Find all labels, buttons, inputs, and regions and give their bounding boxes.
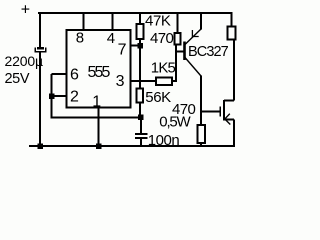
svg-text:2200µ: 2200µ [5, 53, 44, 69]
pin 6 label [70, 67, 79, 84]
wire rail to resistor R4 470 [177, 13, 179, 33]
resistor R5 470 0.5W body [198, 125, 206, 143]
resistor R4 470 body [175, 33, 181, 45]
svg-text:+: + [21, 2, 30, 19]
wire capacitor C2 to ground rail [140, 139, 142, 146]
pin 7 label [118, 41, 127, 58]
pin 3 label [116, 73, 125, 90]
svg-text:4: 4 [107, 30, 115, 47]
wire 56K to node B [139, 103, 141, 116]
label 555 [88, 64, 111, 81]
label 56K [145, 89, 171, 106]
svg-text:56K: 56K [145, 89, 171, 106]
gate wire to MOSFET Q2 [201, 110, 220, 112]
svg-text:100n: 100n [148, 132, 180, 149]
svg-text:BC327: BC327 [188, 44, 229, 60]
junction dot ground pin1 [96, 143, 102, 149]
label BC327 [188, 44, 229, 60]
wire node B down to capacitor C2 [140, 120, 142, 133]
svg-text:470: 470 [150, 30, 173, 47]
wire emitter to top rail [200, 13, 202, 30]
resistor R3 1K5 body (horizontal) [156, 78, 172, 86]
wire from rail to capacitor C1 [39, 12, 41, 48]
svg-text:0,5W: 0,5W [159, 114, 191, 131]
node A junction dot [137, 43, 143, 49]
svg-text:25V: 25V [5, 71, 30, 87]
svg-text:8: 8 [76, 29, 84, 46]
pin 2 wire [52, 95, 67, 97]
pin 1 label [92, 93, 101, 110]
svg-text:1K5: 1K5 [151, 60, 176, 77]
resistor R2 56K body [137, 89, 144, 103]
pin 8 label [76, 29, 84, 46]
wire rail to resistor R1 47K [139, 13, 141, 24]
svg-text:6: 6 [70, 67, 79, 84]
label 470 base resistor [150, 30, 173, 47]
svg-text:2: 2 [70, 89, 79, 106]
pin 1 wire down to ground [98, 108, 100, 147]
op-amp U1 555 IC box [67, 30, 131, 108]
wire rail corner to load resistor [231, 12, 233, 27]
battery plus label [21, 2, 30, 19]
wire R5 to ground rail [200, 143, 202, 146]
label 47K [145, 12, 171, 29]
trigger net vertical wire (pins 6-2) [51, 74, 53, 117]
ground rail wire [29, 145, 235, 147]
capacitor C1 2200µ electrolytic symbol [35, 48, 46, 52]
junction dot pin2 [49, 93, 55, 99]
capacitor C2 100n symbol [135, 134, 148, 138]
pin 3 wire to 1K5 [131, 80, 157, 82]
wire load resistor to MOSFET drain [233, 40, 235, 101]
transistor Q1 BC327 PNP [185, 29, 202, 76]
node B junction dot [138, 115, 144, 121]
transistor Q2 power MOSFET symbol [220, 100, 234, 125]
label 0,5W [159, 114, 191, 131]
trigger net horizontal wire to node B [51, 117, 139, 119]
pin 6 wire [52, 73, 67, 75]
wire 470 bottom to base node [175, 45, 177, 53]
wire from capacitor C1 down to ground rail [39, 52, 41, 146]
top V+ rail wire [38, 12, 232, 14]
label 25V [5, 71, 30, 87]
pin 7 wire [131, 45, 140, 47]
svg-text:47K: 47K [145, 12, 171, 29]
wire gate node down to resistor R5 [200, 112, 202, 125]
wire base node to transistor Q1 base [176, 50, 184, 52]
svg-text:7: 7 [118, 41, 127, 58]
junction dot ground-left [37, 143, 43, 149]
svg-text:555: 555 [88, 64, 111, 81]
label 2200µ [5, 53, 44, 69]
label 1K5 [151, 60, 176, 77]
wire node A down to resistor R2 56K [139, 48, 141, 89]
pin 8 wire [83, 13, 85, 30]
wire 1K5 right to base node [172, 52, 176, 81]
load resistor body (top right) [228, 27, 236, 40]
label 470 gate resistor [172, 101, 195, 118]
pin 4 wire [112, 13, 114, 30]
pin 4 label [107, 30, 115, 47]
resistor R1 47K body [137, 24, 144, 39]
wire 47K to node A [139, 39, 141, 45]
svg-text:3: 3 [116, 73, 125, 90]
wire MOSFET source to ground rail [233, 120, 235, 147]
wire Q1 collector down to gate node [200, 76, 202, 113]
svg-text:1: 1 [92, 93, 101, 110]
label 100n [148, 132, 180, 149]
pin 2 label [70, 89, 79, 106]
